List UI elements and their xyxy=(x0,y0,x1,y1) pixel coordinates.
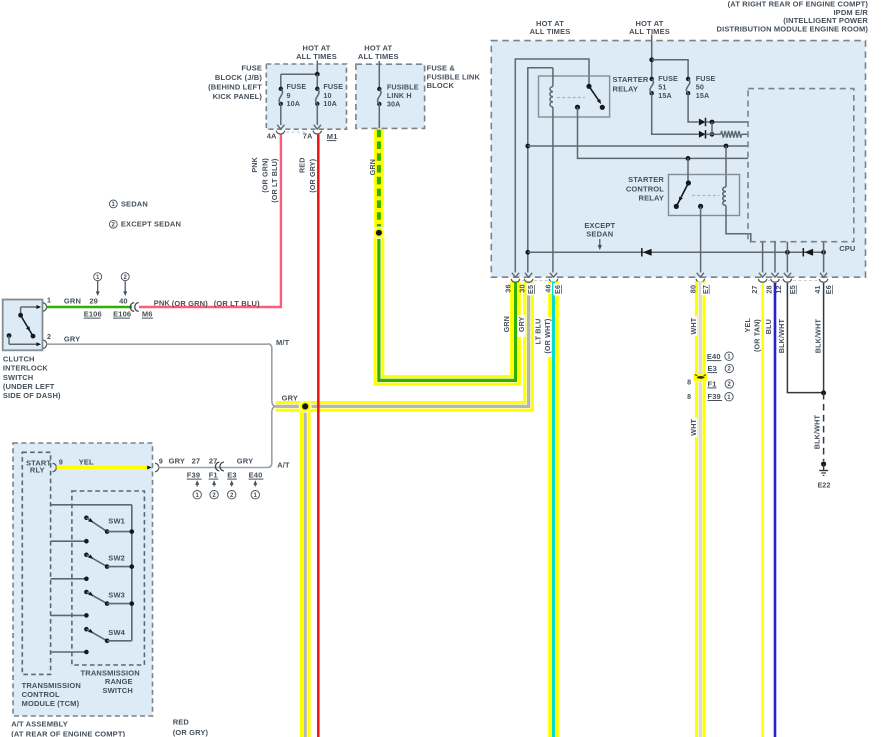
svg-text:4A: 4A xyxy=(267,131,277,140)
svg-text:(OR WHT): (OR WHT) xyxy=(543,318,552,354)
svg-text:SW2: SW2 xyxy=(108,554,125,563)
starter relay U1 box xyxy=(539,76,610,117)
wire CPU output pin 27 xyxy=(762,242,764,273)
ground E22 xyxy=(818,461,831,489)
wire D1 to CPU xyxy=(706,121,749,123)
svg-text:(BEHIND LEFT: (BEHIND LEFT xyxy=(208,83,262,92)
pin label 28 xyxy=(765,285,774,293)
svg-text:PNK: PNK xyxy=(154,298,171,307)
wire label OR WHT xyxy=(543,317,552,357)
svg-text:ALL TIMES: ALL TIMES xyxy=(296,52,337,61)
diode D2 xyxy=(699,130,706,138)
svg-text:F1: F1 xyxy=(209,471,218,480)
svg-text:36: 36 xyxy=(503,284,512,292)
transmission range switch caption xyxy=(81,669,140,695)
wire GRY A/T labels xyxy=(169,457,254,466)
connector pin 41 xyxy=(819,279,827,282)
wire fusible link feed xyxy=(378,61,380,89)
svg-text:(OR TAN): (OR TAN) xyxy=(753,319,762,352)
wire label GRY (pin30) xyxy=(517,315,526,337)
wire fuse 10 output to pin 7A xyxy=(314,104,321,129)
HOT AT ALL TIMES label (IPDM left) xyxy=(530,19,571,36)
svg-text:ALL TIMES: ALL TIMES xyxy=(530,27,571,36)
svg-text:SW3: SW3 xyxy=(108,591,125,600)
svg-text:FUSE &: FUSE & xyxy=(427,64,456,73)
wire label OR TAN xyxy=(753,319,762,352)
wire GRN label xyxy=(64,296,81,305)
wire GRN label (rotated) xyxy=(368,159,377,175)
wire YEL pin 27 to bottom xyxy=(761,283,764,737)
pin 41 exit arrow xyxy=(820,273,827,277)
connector E3 label (WHT) xyxy=(708,364,734,373)
svg-text:BLOCK (J/B): BLOCK (J/B) xyxy=(215,73,262,82)
pin label E5 (bottom) xyxy=(788,285,797,294)
svg-text:E3: E3 xyxy=(227,471,236,480)
svg-text:RED: RED xyxy=(298,157,307,173)
svg-text:15A: 15A xyxy=(658,91,672,100)
svg-text:BLK/WHT: BLK/WHT xyxy=(777,319,786,354)
svg-text:A/T: A/T xyxy=(277,460,290,469)
svg-text:41: 41 xyxy=(813,285,822,293)
node starter control relay switch junction xyxy=(686,156,691,161)
svg-text:YEL: YEL xyxy=(743,318,752,333)
pin label 41 xyxy=(813,285,822,293)
svg-text:KICK PANEL): KICK PANEL) xyxy=(213,92,263,101)
wire BLU pin 28 to bottom xyxy=(774,283,777,737)
svg-text:1: 1 xyxy=(195,493,199,499)
node 29 circled 1 marker xyxy=(89,273,101,306)
fuse 10 10A xyxy=(315,74,343,108)
wire GRN to IPDM pin 36 xyxy=(379,233,516,381)
HOT AT ALL TIMES label (fuse block) xyxy=(296,44,337,61)
svg-text:2: 2 xyxy=(212,493,216,499)
wire TCM rail feed xyxy=(51,505,132,641)
diode D1 xyxy=(699,118,706,126)
svg-text:E3: E3 xyxy=(708,364,717,373)
svg-text:CONTROL: CONTROL xyxy=(22,690,60,699)
connector pin 46 xyxy=(549,279,557,282)
svg-text:2: 2 xyxy=(47,334,51,341)
svg-text:GRY: GRY xyxy=(64,334,80,343)
fuse block caption xyxy=(208,64,262,101)
svg-text:(OR GRN): (OR GRN) xyxy=(261,158,270,193)
TCM START RLY label xyxy=(26,459,51,475)
wire WHT pin 80 upper segment xyxy=(695,282,706,375)
svg-text:BLK/WHT: BLK/WHT xyxy=(813,319,822,354)
svg-text:E5: E5 xyxy=(526,285,535,294)
CPU label xyxy=(839,244,855,253)
HOT AT ALL TIMES label (IPDM right) xyxy=(629,19,670,36)
svg-text:RANGE: RANGE xyxy=(105,677,133,686)
wire fusible link output xyxy=(378,104,380,128)
node BLK/WHT junction xyxy=(821,390,826,395)
svg-text:30A: 30A xyxy=(387,100,401,109)
svg-text:SEDAN: SEDAN xyxy=(121,199,148,208)
wire RED bottom labels xyxy=(173,717,209,737)
node D1 junction xyxy=(710,120,715,125)
legend circled 2 EXCEPT SEDAN xyxy=(109,220,181,229)
node GRN wire junction xyxy=(373,227,384,238)
connector pin 28 xyxy=(771,279,779,282)
starter relay link (dashed) xyxy=(557,97,585,99)
wire GRN clutch to connector M6 xyxy=(47,306,133,308)
svg-text:GRN: GRN xyxy=(64,296,81,305)
svg-text:2: 2 xyxy=(112,223,116,229)
svg-text:15A: 15A xyxy=(696,91,710,100)
node pin41 line junction xyxy=(821,250,826,255)
connector F39 label (WHT) xyxy=(708,392,734,401)
pin label 12 xyxy=(774,285,783,293)
pin 27 exit arrow xyxy=(759,273,766,277)
node fuse feed junction xyxy=(649,57,654,62)
svg-text:MODULE (TCM): MODULE (TCM) xyxy=(22,699,80,708)
clutch interlock switch box xyxy=(3,300,43,351)
svg-text:M1: M1 xyxy=(327,132,338,141)
node 40 circled 2 marker xyxy=(119,273,129,306)
connector E40 label (WHT) xyxy=(707,352,733,361)
wire IPDM right feed xyxy=(651,35,653,79)
svg-text:1: 1 xyxy=(727,395,731,401)
resistor R1 xyxy=(706,131,749,138)
svg-text:STARTER: STARTER xyxy=(613,75,649,84)
svg-text:GRN: GRN xyxy=(502,316,511,332)
fuse 9 10A xyxy=(279,82,307,108)
pin 36 exit arrow xyxy=(512,273,519,277)
svg-text:WHT: WHT xyxy=(689,317,698,334)
pin 8 labels xyxy=(687,380,691,402)
svg-text:(OR LT BLU): (OR LT BLU) xyxy=(214,299,260,308)
fuse and fusible link block box xyxy=(356,64,425,128)
pin label 36 xyxy=(503,284,512,292)
connector M6 label xyxy=(142,310,153,319)
wire except-sedan line xyxy=(528,251,824,253)
clutch interlock switch caption xyxy=(3,354,61,400)
switch SW1 xyxy=(84,516,134,534)
svg-text:YEL: YEL xyxy=(79,457,94,466)
wire pin30 to CPU xyxy=(528,145,748,147)
wire GRY trunk from brace to IPDM pin 30 xyxy=(276,282,529,407)
wire GRY branch to bottom xyxy=(300,411,311,737)
IPDM E/R module box (intelligent power distribution module engine room) xyxy=(491,41,865,278)
starter control relay contacts xyxy=(674,158,704,209)
wire pin 30 feed xyxy=(528,68,553,273)
svg-text:1: 1 xyxy=(96,275,100,281)
wire YEL TCM to A/T connector xyxy=(57,457,152,469)
svg-text:FUSE: FUSE xyxy=(323,82,343,91)
pin label 27 xyxy=(750,285,759,293)
wire RED from fuse block pin 7A to bottom xyxy=(317,135,320,737)
svg-text:1: 1 xyxy=(47,297,51,304)
wire GRN fusible link lead (dashed) xyxy=(374,130,384,233)
connector WHT inline break xyxy=(693,374,707,381)
svg-text:28: 28 xyxy=(765,285,774,293)
connector F39 label xyxy=(187,471,202,499)
A/T brace label xyxy=(277,460,290,469)
connector M1 label xyxy=(327,132,338,141)
HOT AT ALL TIMES label (fusible link) xyxy=(358,44,399,61)
wire label YEL xyxy=(743,318,752,333)
connector pin 36 xyxy=(511,279,519,282)
connector pin 12 xyxy=(783,279,791,282)
svg-text:2: 2 xyxy=(728,382,732,388)
svg-text:80: 80 xyxy=(689,285,698,293)
connector pin 80 xyxy=(696,279,704,282)
wire label WHT lower xyxy=(689,417,698,437)
wire GRY label (trunk) xyxy=(282,394,298,403)
wire TCM stub 4 xyxy=(51,650,89,655)
svg-text:ALL TIMES: ALL TIMES xyxy=(629,27,670,36)
wire starter relay contact feed xyxy=(515,59,589,273)
svg-text:1: 1 xyxy=(727,354,731,360)
switch SW2 xyxy=(84,553,134,569)
wire BLK/WHT pin 12 xyxy=(787,283,822,393)
svg-text:(UNDER LEFT: (UNDER LEFT xyxy=(3,382,55,391)
svg-text:PNK: PNK xyxy=(250,156,259,172)
svg-text:E6: E6 xyxy=(553,285,562,294)
svg-text:SIDE OF DASH): SIDE OF DASH) xyxy=(3,391,61,400)
svg-text:RELAY: RELAY xyxy=(639,194,664,203)
wire TCM stub 2 xyxy=(51,577,89,582)
svg-text:SEDAN: SEDAN xyxy=(586,230,613,239)
wire GRY A/T line xyxy=(158,467,269,469)
wire control relay coil to CPU xyxy=(726,206,751,242)
wire BLK/WHT pin 41 xyxy=(823,283,825,393)
svg-text:A/T ASSEMBLY: A/T ASSEMBLY xyxy=(11,720,68,729)
pin label E7 xyxy=(701,283,710,295)
connector clutch pin 2 xyxy=(43,334,51,349)
svg-text:BLU: BLU xyxy=(764,319,773,334)
pin 46 exit arrow xyxy=(550,273,557,277)
svg-text:WHT: WHT xyxy=(689,418,698,435)
wire PNK from connector M6 to fuse block pin 4A xyxy=(139,135,281,308)
connector F1 label xyxy=(209,471,219,499)
svg-text:1: 1 xyxy=(254,493,258,499)
diode D3 xyxy=(642,248,652,256)
svg-text:TRANSMISSION: TRANSMISSION xyxy=(22,681,81,690)
svg-text:SWITCH: SWITCH xyxy=(102,686,132,695)
svg-text:46: 46 xyxy=(544,284,553,292)
wire control relay output to pin 80 xyxy=(700,206,702,272)
wire fuse 9 output to pin 4A xyxy=(277,104,284,129)
connector pin 27 xyxy=(758,279,766,282)
starter relay contacts xyxy=(575,84,605,110)
svg-text:F39: F39 xyxy=(708,392,721,401)
fuse 51 15A xyxy=(650,74,679,100)
wire fuse 50 feed xyxy=(652,60,688,79)
switch SW4 xyxy=(84,627,132,643)
connector F1 label (WHT) xyxy=(708,379,734,388)
svg-text:(OR GRY): (OR GRY) xyxy=(173,728,209,737)
pin label 30 xyxy=(518,284,527,292)
svg-text:SWITCH: SWITCH xyxy=(3,373,33,382)
connector M6 inline xyxy=(130,303,138,312)
wire label LT BLU xyxy=(534,319,543,345)
wire TCM stub 3 xyxy=(51,613,89,618)
svg-text:FUSIBLE LINK: FUSIBLE LINK xyxy=(427,72,481,81)
wire PNK rotated labels xyxy=(250,156,279,202)
pin 80 exit arrow xyxy=(697,273,704,277)
wire TCM stub 1 xyxy=(51,539,89,544)
svg-text:GRY: GRY xyxy=(237,457,253,466)
svg-text:27: 27 xyxy=(192,457,201,466)
fusible link H 30A xyxy=(377,83,419,109)
legend circled 1 SEDAN xyxy=(109,199,148,208)
svg-text:27: 27 xyxy=(750,285,759,293)
pin 28 exit arrow xyxy=(771,273,778,277)
svg-text:RLY: RLY xyxy=(30,465,45,474)
svg-text:9: 9 xyxy=(59,459,63,466)
svg-text:GRN: GRN xyxy=(368,159,377,175)
wire fuse 50 to diode D1 xyxy=(688,93,699,122)
wire WHT lower segment xyxy=(695,381,706,737)
connector faint links xyxy=(522,280,819,282)
wire CPU output pin 28 xyxy=(774,242,776,273)
svg-text:10A: 10A xyxy=(323,99,337,108)
M/T A/T merge brace xyxy=(268,344,277,468)
connector pin 30 xyxy=(524,279,532,282)
pin label 80 xyxy=(689,285,698,293)
node pin12 line junction xyxy=(785,250,790,255)
pin 30 exit arrow xyxy=(525,273,532,277)
svg-text:INTERLOCK: INTERLOCK xyxy=(3,364,49,373)
IPDM E/R caption xyxy=(717,0,869,33)
svg-text:DISTRIBUTION MODULE ENGINE ROO: DISTRIBUTION MODULE ENGINE ROOM) xyxy=(717,24,869,33)
svg-text:CPU: CPU xyxy=(839,244,855,253)
starter control relay U2 box xyxy=(669,175,740,216)
wire PNK labels xyxy=(154,298,260,308)
pin label E6 (bottom) xyxy=(824,285,833,294)
node GRY trunk junction xyxy=(299,401,311,413)
wire RED crossing overlay xyxy=(317,400,320,413)
wire RED rotated labels xyxy=(298,157,317,192)
connector E40 label xyxy=(249,471,264,499)
svg-text:RELAY: RELAY xyxy=(613,84,638,93)
svg-text:E40: E40 xyxy=(707,352,721,361)
wire LT BLU pin 46 to bottom xyxy=(548,282,559,737)
clutch interlock switch contacts xyxy=(7,305,41,346)
connector E106 label 2 xyxy=(113,310,131,319)
connector inline E3/F1 xyxy=(215,462,223,471)
node D2 junction xyxy=(710,122,715,137)
svg-text:E106: E106 xyxy=(84,310,102,319)
CPU box xyxy=(748,89,854,242)
svg-text:2: 2 xyxy=(728,367,732,373)
svg-text:E40: E40 xyxy=(249,471,263,480)
A/T assembly caption xyxy=(11,720,125,737)
wire CPU output pin 41 xyxy=(823,242,825,273)
svg-text:2: 2 xyxy=(123,275,127,281)
svg-text:E22: E22 xyxy=(818,482,831,489)
starter control relay caption xyxy=(626,175,665,203)
svg-text:(OR GRN): (OR GRN) xyxy=(172,299,209,308)
wire J/B feed xyxy=(281,61,318,89)
svg-text:STARTER: STARTER xyxy=(628,175,664,184)
svg-text:SW1: SW1 xyxy=(108,517,125,526)
connector M1 pin 4A xyxy=(267,131,285,141)
EXCEPT SEDAN label xyxy=(584,221,615,250)
wire label BLK/WHT pin41 xyxy=(813,319,822,354)
svg-text:12: 12 xyxy=(774,285,783,293)
connector E3 label xyxy=(227,471,237,499)
svg-text:BLK/WHT: BLK/WHT xyxy=(813,415,822,450)
svg-text:CLUTCH: CLUTCH xyxy=(3,354,35,363)
svg-text:GRY: GRY xyxy=(169,457,185,466)
svg-text:8: 8 xyxy=(687,380,691,387)
wire starter relay output xyxy=(578,107,749,158)
connector M1 pin 7A xyxy=(286,131,322,141)
svg-text:F1: F1 xyxy=(708,379,717,388)
connector TCM pin 9 xyxy=(53,459,63,471)
svg-text:LT BLU: LT BLU xyxy=(534,319,543,345)
A/T assembly box xyxy=(13,443,153,716)
svg-text:BLOCK: BLOCK xyxy=(427,81,455,90)
svg-text:9: 9 xyxy=(159,459,163,466)
wire label BLU xyxy=(764,319,773,334)
wire label WHT upper xyxy=(689,316,698,336)
svg-text:TRANSMISSION: TRANSMISSION xyxy=(81,669,140,678)
wire CPU output pin 12 xyxy=(786,242,788,273)
fuse block (J/B) box xyxy=(266,64,346,129)
fusible link block caption xyxy=(427,64,481,91)
starter control relay coil xyxy=(723,187,726,205)
svg-text:GRY: GRY xyxy=(517,316,526,332)
svg-text:2: 2 xyxy=(230,493,234,499)
svg-text:29: 29 xyxy=(89,296,98,305)
wire label BLK/WHT pin12 xyxy=(777,319,786,354)
pin label E6 (top) xyxy=(553,283,562,295)
svg-text:RED: RED xyxy=(173,717,190,726)
svg-text:M/T: M/T xyxy=(276,338,290,347)
starter control relay link (dashed) xyxy=(692,195,720,197)
svg-text:ALL TIMES: ALL TIMES xyxy=(358,52,399,61)
connector A/T pin 9 xyxy=(155,459,163,472)
svg-text:E7: E7 xyxy=(701,285,710,294)
svg-text:E106: E106 xyxy=(113,310,131,319)
fuse 50 15A xyxy=(686,74,716,100)
svg-text:10A: 10A xyxy=(287,99,301,108)
node J/B feed junction xyxy=(315,72,320,77)
node control relay coil junction xyxy=(724,144,729,149)
connector E106 label 1 xyxy=(84,310,102,319)
diode D4 xyxy=(803,248,813,256)
svg-text:(AT REAR OF ENGINE COMPT): (AT REAR OF ENGINE COMPT) xyxy=(11,729,125,737)
svg-text:FUSE: FUSE xyxy=(241,64,262,73)
svg-text:E5: E5 xyxy=(788,285,797,294)
svg-text:SW4: SW4 xyxy=(108,628,125,637)
svg-text:GRY: GRY xyxy=(282,394,298,403)
svg-text:40: 40 xyxy=(119,296,128,305)
wire GRY label (M/T) xyxy=(64,334,80,343)
svg-text:FUSE: FUSE xyxy=(287,82,307,91)
wire BLK/WHT to ground (dashed) xyxy=(823,393,825,461)
wire label GRN (pin36) xyxy=(502,316,511,332)
svg-text:EXCEPT SEDAN: EXCEPT SEDAN xyxy=(121,220,181,229)
wire coil feed xyxy=(725,146,727,187)
svg-text:CONTROL: CONTROL xyxy=(626,185,664,194)
wire GRY clutch pin 2 to M/T brace xyxy=(47,343,268,345)
starter relay coil xyxy=(550,68,553,273)
svg-text:M6: M6 xyxy=(142,310,153,319)
pin label 46 xyxy=(544,283,553,294)
switch SW3 xyxy=(84,590,134,606)
transmission range switch box xyxy=(72,491,144,665)
node pin30/CPU junction xyxy=(525,144,530,149)
pin label E5 (top) xyxy=(526,283,535,295)
TCM caption xyxy=(22,681,81,708)
node pin30/except-sedan junction xyxy=(525,250,530,255)
svg-text:E6: E6 xyxy=(824,285,833,294)
M/T label xyxy=(276,338,290,347)
